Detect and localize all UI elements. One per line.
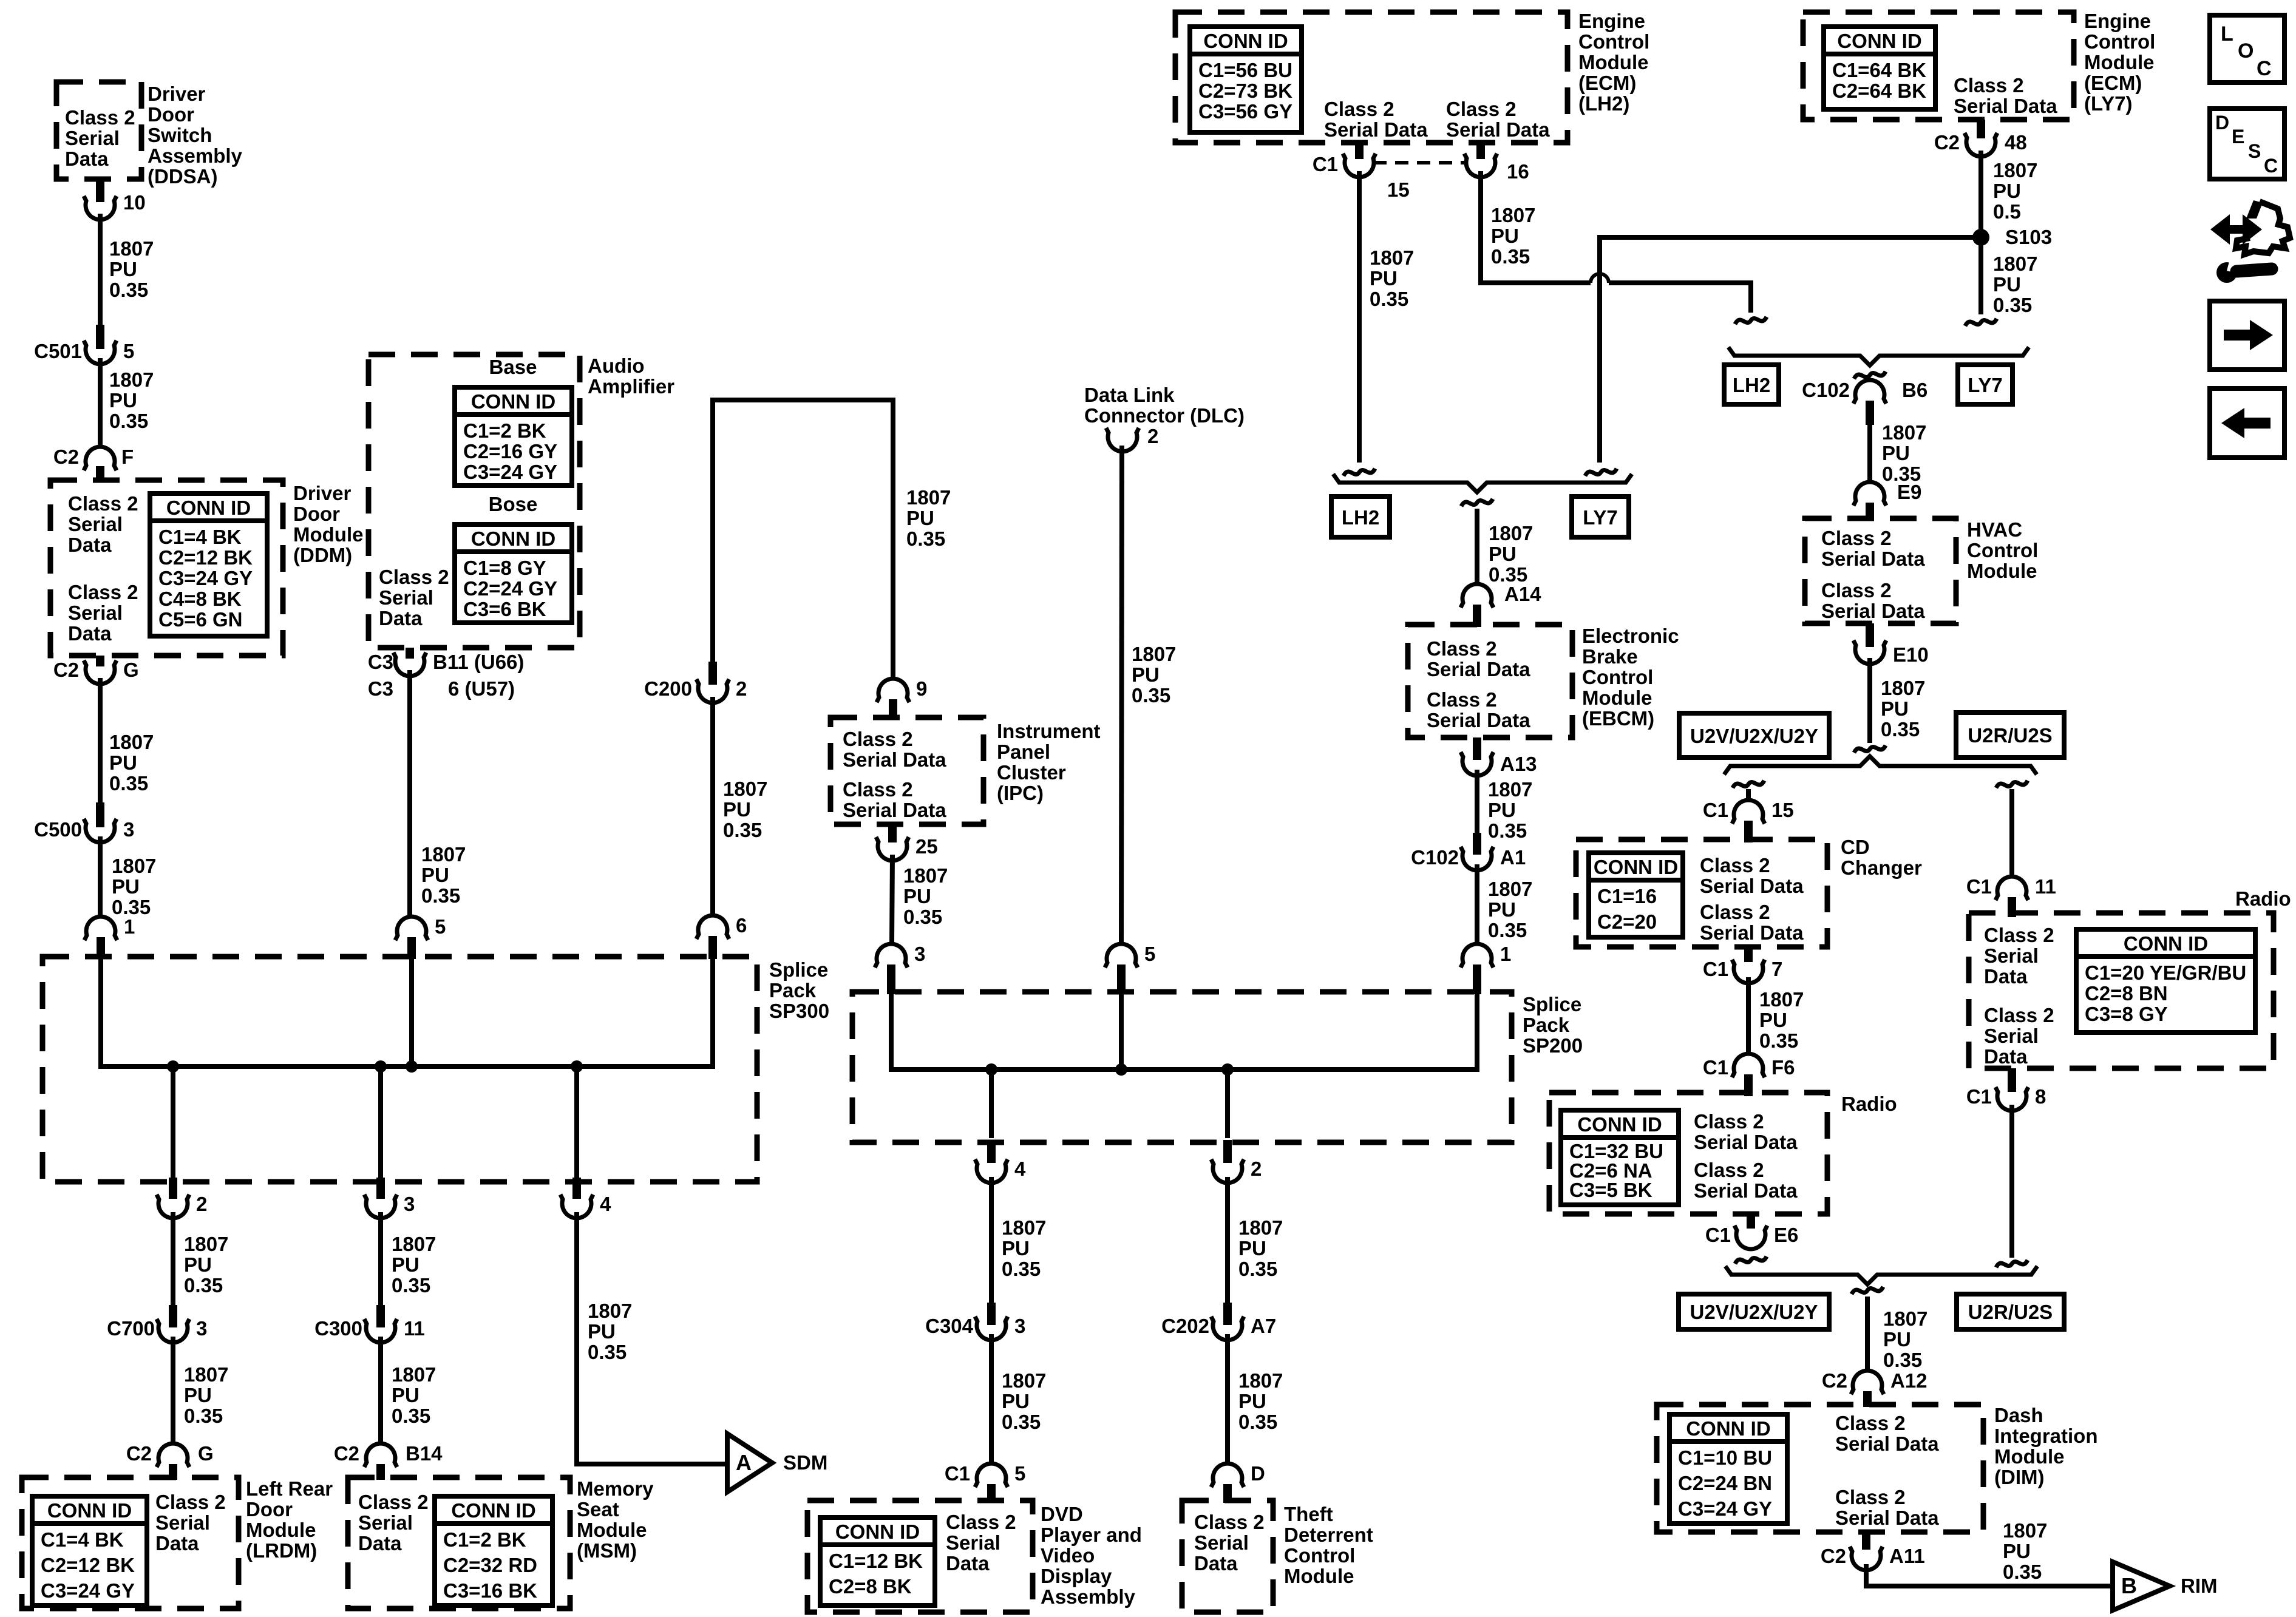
svg-text:CONN ID: CONN ID (1837, 30, 1921, 52)
svg-text:1807: 1807 (1993, 159, 2037, 181)
wire to radio (2009, 789, 2014, 876)
svg-text:Data: Data (68, 534, 112, 556)
svg-text:5: 5 (1144, 943, 1155, 965)
svg-text:PU: PU (184, 1384, 212, 1406)
connector IPC pin 25 (876, 835, 938, 861)
svg-text:2: 2 (736, 677, 747, 700)
connector C102 pin A1 (1411, 833, 1526, 870)
ECM LH2 CONN ID table (1190, 27, 1302, 132)
svg-text:16: 16 (1507, 160, 1529, 183)
DIM exit stub (1862, 1532, 1870, 1550)
svg-text:CONN ID: CONN ID (1577, 1113, 1662, 1136)
svg-text:C5=6 GN: C5=6 GN (158, 608, 242, 631)
wire label 1807 PU 0.5 (1993, 159, 2037, 223)
svg-text:CONN ID: CONN ID (451, 1499, 535, 1522)
svg-text:PU: PU (1132, 663, 1160, 686)
DDM exit stub (96, 656, 104, 666)
svg-text:5: 5 (123, 340, 134, 362)
wire S103 horizontal to LH2 branch (1600, 237, 1981, 463)
svg-text:1807: 1807 (184, 1363, 228, 1386)
svg-text:Control: Control (1582, 666, 1653, 688)
svg-text:C2: C2 (1822, 1369, 1847, 1392)
DIM pin label Class 2 Serial Data (top) (1835, 1412, 1939, 1455)
svg-text:Serial: Serial (68, 602, 123, 624)
svg-text:Class 2: Class 2 (843, 728, 913, 750)
svg-text:(IPC): (IPC) (997, 782, 1044, 804)
svg-text:C3=5 BK: C3=5 BK (1569, 1179, 1652, 1201)
connector pin E9 (HVAC entry) (1853, 481, 1921, 506)
svg-text:1807: 1807 (1488, 878, 1532, 900)
svg-text:0.35: 0.35 (1132, 684, 1170, 707)
svg-text:C1: C1 (1705, 1224, 1731, 1246)
svg-text:PU: PU (1370, 267, 1398, 290)
wire SP300-3 to C300 (378, 1212, 383, 1305)
wire pin15 to LH2 bracket (1357, 171, 1362, 463)
connector SP200 pin 3 (875, 943, 925, 968)
label box LY7 (second) (1958, 365, 2012, 404)
SP300 branch wire 4 (574, 1066, 579, 1178)
connector C300 pin 11 (314, 1305, 425, 1343)
svg-text:1807: 1807 (588, 1300, 632, 1322)
svg-text:3: 3 (914, 943, 925, 965)
svg-text:L: L (2221, 22, 2233, 46)
svg-text:(EBCM): (EBCM) (1582, 707, 1654, 730)
svg-text:0.35: 0.35 (588, 1341, 627, 1363)
svg-text:Serial Data: Serial Data (1694, 1131, 1798, 1153)
splice pack SP300 box (42, 957, 757, 1182)
svg-text:C700: C700 (107, 1317, 155, 1340)
svg-text:1807: 1807 (1491, 204, 1535, 226)
svg-text:Serial Data: Serial Data (1700, 875, 1804, 897)
module DVD Player and Video Display Assembly (807, 1500, 1033, 1612)
svg-text:0.35: 0.35 (1002, 1411, 1041, 1433)
svg-text:5: 5 (1014, 1462, 1025, 1485)
svg-text:C2=24 BN: C2=24 BN (1678, 1472, 1772, 1494)
svg-text:Module: Module (1578, 51, 1648, 73)
module Driver Door Switch Assembly (DDSA) (56, 82, 141, 179)
wire E10 to bracket (1867, 658, 1872, 743)
SP200 junction dot pin 5 (1115, 1063, 1127, 1076)
stub into MSM (376, 1464, 385, 1480)
SP200 branch wire 2 (1225, 1070, 1230, 1138)
wire label 1807 PU 0.35 (723, 778, 767, 841)
IPC exit stub (888, 824, 897, 842)
EBCM pin label Class 2 Serial Data (bottom) (1427, 688, 1530, 731)
svg-text:PU: PU (903, 885, 931, 907)
HVAC pin label Class 2 Serial Data (bottom) (1821, 579, 1925, 622)
svg-text:1807: 1807 (184, 1233, 228, 1255)
svg-text:Pack: Pack (769, 979, 817, 1002)
SP300 wire from pin 5 (409, 959, 414, 1066)
svg-text:RIM: RIM (2181, 1575, 2218, 1597)
label box U2V/U2X/U2Y (second) (1679, 1294, 1829, 1329)
svg-text:1807: 1807 (109, 237, 154, 260)
stub into HVAC (1866, 503, 1874, 521)
svg-text:(DDM): (DDM) (293, 544, 352, 566)
radio exit stub (1747, 1214, 1755, 1229)
amp Base CONN ID table (455, 387, 572, 486)
label Audio Amplifier (588, 354, 674, 398)
wire label 1807 PU 0.35 (1488, 878, 1532, 941)
svg-text:C501: C501 (34, 340, 82, 362)
label box U2V/U2X/U2Y (1679, 713, 1829, 758)
label ECM LH2 name (1578, 10, 1649, 115)
svg-text:1807: 1807 (1238, 1369, 1283, 1392)
svg-text:A7: A7 (1251, 1315, 1276, 1337)
svg-text:Deterrent: Deterrent (1284, 1524, 1373, 1546)
svg-text:A: A (736, 1450, 752, 1475)
svg-text:PU: PU (1759, 1009, 1787, 1031)
svg-text:PU: PU (1489, 543, 1517, 565)
svg-text:C2=24 GY: C2=24 GY (463, 577, 557, 600)
svg-text:C2: C2 (1934, 131, 1960, 154)
svg-text:C2=73 BK: C2=73 BK (1198, 80, 1292, 102)
label IPC name (997, 720, 1101, 804)
svg-text:Control: Control (1578, 30, 1649, 53)
ECM LY7 pin stub (1977, 120, 1985, 138)
wire S103 down (1978, 245, 1983, 314)
svg-text:B11 (U66): B11 (U66) (433, 651, 524, 673)
svg-text:6: 6 (736, 914, 747, 937)
svg-text:C1=16: C1=16 (1597, 885, 1657, 907)
wire label 1807 PU 0.35 (392, 1363, 436, 1427)
svg-text:0.35: 0.35 (109, 410, 148, 432)
CD pin label Class 2 Serial Data (top) (1700, 854, 1804, 897)
connector C1 pin F6 (radio entry) (1703, 1054, 1795, 1079)
svg-text:Serial: Serial (1194, 1531, 1249, 1554)
svg-text:Serial: Serial (65, 127, 120, 149)
svg-text:Class 2: Class 2 (1984, 924, 2054, 946)
connector DLC pin 2 (1106, 425, 1158, 452)
svg-text:B6: B6 (1902, 379, 1927, 401)
wire label 1807 PU 0.35 (1882, 421, 1926, 485)
HVAC pin label Class 2 Serial Data (top) (1821, 527, 1925, 570)
svg-text:Class 2: Class 2 (68, 492, 138, 515)
stub SP300 pin1 (97, 937, 105, 959)
bus bracket to DIM (1725, 1266, 2037, 1284)
svg-text:1807: 1807 (1489, 522, 1533, 544)
svg-text:CONN ID: CONN ID (1594, 856, 1678, 878)
stub into DIM (1863, 1391, 1872, 1407)
svg-text:Door: Door (246, 1498, 293, 1520)
svg-text:1807: 1807 (109, 731, 154, 753)
svg-text:Audio: Audio (588, 354, 644, 377)
wire squiggle below E6 (1735, 1256, 1767, 1264)
wire squiggle below bracket (1461, 499, 1493, 506)
svg-text:PU: PU (109, 389, 137, 412)
dashed connector body line C1 (1373, 161, 1467, 164)
IPC pin label Class 2 Serial Data (top) (843, 728, 946, 771)
svg-text:Module: Module (2084, 51, 2154, 73)
wire C200 to SP300 pin 6 (710, 697, 715, 915)
svg-text:PU: PU (2003, 1540, 2031, 1562)
svg-text:Class 2: Class 2 (1821, 579, 1892, 602)
svg-text:E9: E9 (1897, 481, 1921, 503)
wire C304 to DVD (989, 1334, 994, 1463)
svg-text:Class 2: Class 2 (1835, 1486, 1906, 1508)
wire SP200-2 to C202 (1225, 1177, 1230, 1303)
wire end squiggle (S103 south branch) (1965, 319, 1997, 326)
stub into IPC (889, 699, 897, 720)
DDM pin label Class 2 Serial Data (top) (68, 492, 138, 556)
radio pin label Class 2 Serial Data (top) (1694, 1110, 1798, 1153)
EBCM pin label Class 2 Serial Data (top) (1427, 637, 1530, 680)
wire label 1807 PU 0.35 (109, 368, 154, 432)
svg-text:3: 3 (196, 1317, 207, 1340)
connector C202 pin A7 (1161, 1303, 1276, 1340)
svg-text:Radio: Radio (2235, 887, 2291, 910)
svg-text:Changer: Changer (1841, 856, 1922, 879)
svg-text:0.35: 0.35 (903, 906, 942, 928)
wire hop over vertical (1591, 274, 1609, 283)
connector C2 pin F (DDM entry) (53, 446, 134, 470)
svg-text:C202: C202 (1161, 1315, 1209, 1337)
svg-text:Class 2: Class 2 (1700, 901, 1770, 923)
connector pin A14 (EBCM entry) (1461, 583, 1541, 608)
svg-text:Class 2: Class 2 (1835, 1412, 1906, 1434)
svg-text:Driver: Driver (148, 83, 206, 105)
svg-text:Video: Video (1041, 1544, 1095, 1567)
svg-text:PU: PU (392, 1384, 419, 1406)
svg-text:1807: 1807 (1002, 1369, 1046, 1392)
svg-text:A14: A14 (1504, 583, 1541, 605)
amp pin label Class 2 Serial Data (379, 566, 449, 629)
DIM CONN ID table (1669, 1414, 1787, 1524)
svg-text:Serial Data: Serial Data (1821, 600, 1925, 622)
connector C1 pin 5 (DVD entry) (945, 1462, 1026, 1487)
svg-text:Serial: Serial (68, 513, 123, 535)
connector SP300 pin 1 (84, 915, 135, 940)
wire squiggle below bracket (1852, 1287, 1883, 1294)
svg-text:11: 11 (404, 1317, 425, 1340)
connector C1 pin 8 (1966, 1085, 2046, 1111)
svg-text:C2=20: C2=20 (1597, 910, 1657, 933)
svg-text:5: 5 (435, 915, 446, 938)
svg-text:E10: E10 (1893, 643, 1929, 666)
svg-text:C1: C1 (1966, 875, 1992, 898)
label box LH2 (1331, 497, 1390, 537)
amp label Base (489, 356, 537, 378)
connector SP200 pin 4 (975, 1158, 1026, 1183)
svg-text:25: 25 (915, 835, 938, 858)
svg-text:O: O (2238, 39, 2254, 63)
connector pin 10 (DDSA) (84, 191, 146, 220)
svg-text:C3: C3 (368, 651, 393, 673)
wire end squiggle (S103 west branch) (1585, 469, 1617, 476)
svg-text:Class 2: Class 2 (946, 1511, 1016, 1533)
svg-text:2: 2 (1251, 1158, 1262, 1180)
label HVAC name (1967, 518, 2038, 582)
EBCM exit stub (1473, 737, 1481, 760)
stub into radio (lower) (1744, 1074, 1753, 1096)
svg-text:0.35: 0.35 (723, 819, 762, 841)
svg-text:C3=56 GY: C3=56 GY (1198, 100, 1292, 123)
svg-text:Module: Module (1284, 1565, 1354, 1587)
svg-text:CONN ID: CONN ID (471, 527, 555, 550)
module Electronic Brake Control Module (EBCM) (1408, 625, 1572, 737)
svg-text:Connector (DLC): Connector (DLC) (1084, 404, 1245, 427)
svg-text:PU: PU (421, 864, 449, 886)
svg-text:1807: 1807 (109, 368, 154, 391)
wire pin16 crossover (1481, 171, 1591, 283)
svg-text:0.35: 0.35 (184, 1405, 223, 1427)
wire label 1807 PU 0.35 (1002, 1369, 1046, 1433)
svg-text:1807: 1807 (1132, 643, 1176, 665)
module Left Rear Door Module (LRDM) (22, 1477, 239, 1609)
svg-text:Splice: Splice (769, 958, 828, 981)
svg-text:Class 2: Class 2 (1954, 74, 2024, 97)
label Theft Deterrent name (1284, 1503, 1373, 1587)
svg-text:Data: Data (946, 1552, 990, 1575)
svg-text:1807: 1807 (2003, 1519, 2047, 1542)
wire end squiggle (pin16) (1735, 317, 1767, 324)
wire label 1807 PU 0.35 (1370, 246, 1414, 310)
module CD Changer (1576, 839, 1827, 947)
icon forward arrow box (2210, 301, 2284, 370)
svg-text:Serial: Serial (358, 1511, 413, 1534)
wire C202 to Theft module (1225, 1334, 1230, 1463)
svg-text:PU: PU (723, 798, 751, 821)
label DDM name (293, 482, 363, 566)
svg-text:15: 15 (1387, 178, 1410, 201)
svg-text:Serial: Serial (1984, 1025, 2039, 1047)
svg-text:Class 2: Class 2 (1694, 1110, 1764, 1133)
svg-text:Data: Data (155, 1532, 199, 1554)
svg-text:PU: PU (184, 1253, 212, 1276)
wire label 1807 PU 0.35 (1881, 677, 1925, 741)
svg-text:C1=12 BK: C1=12 BK (829, 1550, 923, 1572)
svg-text:A13: A13 (1500, 753, 1537, 775)
svg-text:CONN ID: CONN ID (471, 390, 555, 413)
label Data Link Connector (DLC) (1084, 384, 1245, 427)
wire label 1807 PU 0.35 (1491, 204, 1535, 268)
label LRDM name (246, 1477, 333, 1562)
wire label 1807 PU 0.35 (1759, 988, 1804, 1052)
svg-text:Control: Control (1967, 539, 2038, 561)
svg-text:Class 2: Class 2 (358, 1491, 429, 1513)
connector SP300 pin 5 (395, 915, 446, 940)
SP300 junction dot pin 5 (406, 1060, 418, 1073)
SP200 bus wire (891, 994, 1477, 1070)
wire label 1807 PU 0.35 (903, 864, 948, 928)
svg-text:E: E (2232, 126, 2244, 147)
svg-text:PU: PU (1881, 697, 1909, 720)
svg-text:Data: Data (1194, 1552, 1238, 1575)
label box U2R/U2S (1956, 713, 2064, 758)
svg-text:C102: C102 (1411, 846, 1459, 869)
connector C2 pin G (DDM exit) (53, 659, 139, 684)
svg-text:C2=16 GY: C2=16 GY (463, 440, 557, 463)
svg-text:C300: C300 (314, 1317, 362, 1340)
svg-text:Door: Door (148, 103, 194, 126)
svg-text:Control: Control (1284, 1544, 1355, 1567)
wire label 1807 PU 0.35 (1883, 1307, 1927, 1371)
svg-text:Serial Data: Serial Data (843, 748, 946, 771)
svg-text:C1=10 BU: C1=10 BU (1678, 1446, 1772, 1469)
stub into DDM (96, 466, 104, 483)
svg-text:PU: PU (1883, 1328, 1911, 1351)
svg-text:2: 2 (1147, 425, 1158, 447)
connector C1 pin 11 (radio entry) (1966, 875, 2056, 900)
svg-text:Serial Data: Serial Data (1324, 118, 1428, 141)
ECM LH2 pin label Class 2 Serial Data (pin15) (1324, 98, 1428, 141)
svg-text:(ECM): (ECM) (1578, 72, 1636, 94)
svg-text:C2=12 BK: C2=12 BK (41, 1554, 135, 1576)
label EBCM name (1582, 625, 1679, 730)
svg-text:Cluster: Cluster (997, 761, 1066, 784)
svg-text:Theft: Theft (1284, 1503, 1333, 1525)
module Driver Door Module (DDM) (50, 480, 283, 656)
svg-text:0.35: 0.35 (1881, 718, 1920, 741)
svg-text:C2=12 BK: C2=12 BK (158, 546, 253, 569)
wire squiggle left branch (1733, 781, 1764, 788)
svg-text:0.5: 0.5 (1993, 200, 2021, 223)
svg-text:Class 2: Class 2 (1984, 1004, 2054, 1026)
svg-text:C1: C1 (1703, 1056, 1728, 1079)
connector C304 pin 3 (925, 1303, 1025, 1340)
bus bracket LH2/LY7 merge (1333, 474, 1632, 492)
svg-text:(LY7): (LY7) (2084, 92, 2132, 115)
svg-text:Serial: Serial (155, 1511, 210, 1534)
svg-text:Serial Data: Serial Data (1821, 547, 1925, 570)
HVAC exit stub (1866, 623, 1874, 647)
svg-text:C3=24 GY: C3=24 GY (1678, 1497, 1772, 1520)
svg-text:D: D (2215, 112, 2229, 134)
bus bracket CD/radio split (1724, 756, 2037, 775)
svg-text:0.35: 0.35 (1238, 1411, 1277, 1433)
stub into EBCM (1473, 605, 1481, 627)
svg-text:8: 8 (2035, 1085, 2046, 1108)
wire C1-8 down (2009, 1105, 2014, 1258)
svg-text:PU: PU (1002, 1237, 1030, 1259)
svg-text:Data: Data (68, 622, 112, 645)
svg-text:1807: 1807 (903, 864, 948, 887)
radio pin label Class 2 Serial Data (top) (1984, 924, 2054, 988)
svg-text:CD: CD (1841, 836, 1870, 858)
label Radio name (lower) (1841, 1093, 1897, 1115)
svg-text:Brake: Brake (1582, 645, 1638, 668)
svg-text:Engine: Engine (2084, 10, 2151, 32)
off-page connector A SDM (727, 1434, 827, 1492)
MSM CONN ID table (435, 1496, 552, 1605)
wire squiggle right branch (1996, 781, 2028, 788)
connector SP300 pin 2 (157, 1193, 207, 1218)
svg-text:LH2: LH2 (1733, 374, 1770, 396)
svg-text:C2=8 BK: C2=8 BK (829, 1575, 912, 1598)
svg-text:Player and: Player and (1041, 1524, 1142, 1546)
svg-text:PU: PU (1993, 180, 2021, 202)
wire label 1807 PU 0.35 (1238, 1369, 1283, 1433)
svg-text:1: 1 (1500, 943, 1511, 965)
svg-text:PU: PU (1488, 898, 1516, 921)
svg-text:Class 2: Class 2 (1821, 527, 1892, 549)
wire label 1807 PU 0.35 (112, 855, 156, 918)
svg-text:6 (U57): 6 (U57) (448, 677, 515, 700)
svg-text:1807: 1807 (112, 855, 156, 877)
CD exit stub (1744, 947, 1753, 962)
wire A11 to RIM (1866, 1564, 2113, 1586)
svg-text:Module: Module (1994, 1445, 2064, 1468)
SP200 pin 4 stub (987, 1140, 996, 1163)
connector C2 pin B14 (MSM entry) (334, 1442, 443, 1467)
svg-text:1807: 1807 (1238, 1216, 1283, 1239)
svg-text:Data: Data (1984, 965, 2028, 988)
radio right CONN ID table (2076, 929, 2255, 1032)
svg-text:0.35: 0.35 (1238, 1258, 1277, 1280)
svg-text:C3=24 GY: C3=24 GY (158, 567, 253, 589)
svg-text:U2V/U2X/U2Y: U2V/U2X/U2Y (1690, 725, 1818, 747)
wire bracket to A14 (1475, 509, 1479, 584)
